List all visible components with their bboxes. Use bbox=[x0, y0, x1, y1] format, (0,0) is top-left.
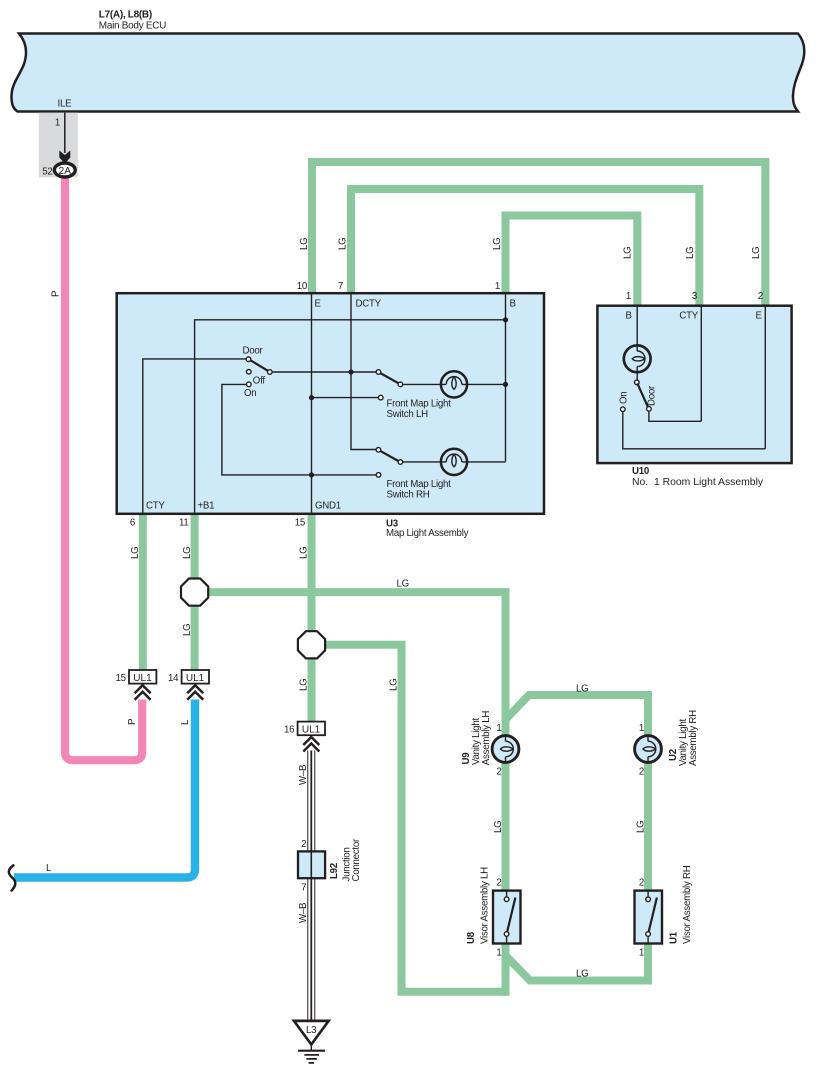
component U8 Visor Assembly LH bbox=[493, 891, 521, 944]
switch Off contact bbox=[247, 370, 252, 375]
svg-text:UL1: UL1 bbox=[133, 673, 152, 684]
wire P (pink) from connector 2A to UL1 15 bbox=[65, 177, 142, 760]
svg-text:L7(A), L8(B): L7(A), L8(B) bbox=[99, 10, 152, 21]
svg-text:LG: LG bbox=[338, 238, 349, 250]
svg-text:No. 1 Room Light Assembly: No. 1 Room Light Assembly bbox=[632, 477, 764, 488]
switch LH upper contact bbox=[376, 370, 381, 375]
svg-text:16: 16 bbox=[284, 725, 294, 736]
wire LG U3 pin 11 +B1 down to UL1 14 bbox=[191, 512, 199, 670]
switch Door contact bbox=[246, 357, 251, 362]
svg-text:1: 1 bbox=[496, 723, 501, 734]
svg-text:U8: U8 bbox=[466, 931, 477, 944]
switch LH pole contact bbox=[398, 382, 403, 387]
svg-text:Map Light Assembly: Map Light Assembly bbox=[386, 528, 469, 539]
svg-text:DCTY: DCTY bbox=[356, 299, 382, 310]
switch RH pole contact bbox=[398, 460, 403, 465]
wire Door contact to CTY bbox=[649, 411, 701, 421]
svg-text:1: 1 bbox=[495, 281, 500, 292]
svg-text:6: 6 bbox=[130, 518, 135, 529]
svg-text:Off: Off bbox=[253, 375, 266, 386]
svg-text:W–B: W–B bbox=[298, 765, 309, 785]
svg-text:LG: LG bbox=[623, 247, 634, 259]
svg-text:Visor Assembly LH: Visor Assembly LH bbox=[480, 867, 491, 944]
svg-text:LG: LG bbox=[130, 547, 141, 559]
connector shading for pin ILE bbox=[39, 113, 78, 178]
wire from ILE pin to connector 2A bbox=[64, 113, 66, 153]
wire RH pole to lamp and B bbox=[403, 461, 506, 463]
lamp Front Map Light LH bbox=[441, 371, 467, 397]
junction dot E/LH lower bbox=[309, 395, 314, 400]
wire L (blue) from page edge to UL1 14 bbox=[14, 700, 195, 878]
ground L3 bbox=[294, 1021, 329, 1063]
svg-text:L: L bbox=[46, 863, 52, 874]
svg-text:15: 15 bbox=[116, 673, 126, 684]
svg-text:Assembly RH: Assembly RH bbox=[688, 710, 699, 766]
svg-text:1: 1 bbox=[639, 723, 644, 734]
svg-text:7: 7 bbox=[338, 281, 343, 292]
wire LG diagonal branch to U2 vanity RH bbox=[506, 695, 649, 736]
svg-text:Assembly LH: Assembly LH bbox=[481, 711, 492, 766]
svg-text:E: E bbox=[315, 299, 322, 310]
svg-text:On: On bbox=[244, 388, 256, 399]
svg-text:3: 3 bbox=[692, 291, 697, 302]
connector 15 UL1 bbox=[129, 670, 156, 684]
svg-text:B: B bbox=[510, 299, 516, 310]
wire W-B from UL1 16 down to ground (white wire with black tracer) bbox=[308, 751, 315, 1021]
svg-text:7: 7 bbox=[301, 882, 306, 893]
svg-text:L: L bbox=[180, 719, 191, 725]
svg-text:2: 2 bbox=[639, 767, 644, 778]
svg-text:LG: LG bbox=[576, 684, 588, 695]
svg-text:LG: LG bbox=[299, 547, 310, 559]
svg-text:LG: LG bbox=[389, 679, 400, 691]
switch On contact U10 bbox=[621, 407, 626, 412]
connector L92 Junction Connector bbox=[298, 851, 325, 878]
wire LG from junction J2 right, down and to visor LH bbox=[312, 645, 508, 992]
switch LH lower contact bbox=[378, 395, 383, 400]
junction connector J1 octagon bbox=[181, 579, 208, 606]
svg-text:LG: LG bbox=[751, 247, 762, 259]
wire On contact to E bbox=[623, 412, 766, 449]
chevron marker below UL1 14 bbox=[187, 685, 203, 700]
lamp U9 Vanity Light Assembly LH bbox=[492, 736, 519, 763]
svg-text:LG: LG bbox=[299, 679, 310, 691]
svg-text:LG: LG bbox=[492, 238, 503, 250]
switch RH upper contact bbox=[376, 448, 381, 453]
wire switch pole to LH switch bbox=[272, 371, 376, 373]
svg-text:P: P bbox=[127, 719, 138, 725]
svg-text:15: 15 bbox=[295, 518, 305, 529]
wire LG from junction J1 right and down to vanity lights bbox=[195, 592, 506, 736]
component U1 Visor Assembly RH bbox=[635, 891, 663, 944]
junction dot DCTY/pole bbox=[348, 369, 353, 374]
svg-text:1: 1 bbox=[639, 948, 644, 959]
svg-text:2: 2 bbox=[639, 878, 644, 889]
svg-text:14: 14 bbox=[168, 673, 179, 684]
connector 2A oval bbox=[54, 163, 75, 177]
svg-text:Front Map Light: Front Map Light bbox=[387, 479, 452, 490]
node E internal line U10 bbox=[764, 307, 766, 449]
wire LH pole to lamp and B bbox=[403, 383, 506, 385]
wire LG U3 pin 15 GND1 down to UL1 16 bbox=[308, 512, 316, 723]
switch RH lower contact bbox=[376, 473, 381, 478]
svg-text:ILE: ILE bbox=[58, 99, 73, 110]
wire CTY internal to Door contact bbox=[143, 359, 246, 513]
svg-text:1: 1 bbox=[55, 117, 60, 128]
wire LG U3 pin 6 CTY down to UL1 15 bbox=[139, 512, 147, 670]
wire +B1 internal to B bbox=[195, 320, 506, 513]
svg-text:Door: Door bbox=[647, 385, 658, 406]
svg-text:LG: LG bbox=[182, 547, 193, 559]
svg-text:2A: 2A bbox=[58, 166, 71, 177]
node E internal line bbox=[311, 295, 313, 513]
switch pole contact bbox=[268, 370, 273, 375]
svg-text:LG: LG bbox=[299, 238, 310, 250]
svg-text:2: 2 bbox=[758, 291, 763, 302]
wire lamp to switch pole bbox=[636, 372, 638, 380]
svg-text:W–B: W–B bbox=[298, 903, 309, 923]
svg-text:E: E bbox=[756, 311, 763, 322]
lamp U2 Vanity Light Assembly RH bbox=[635, 736, 662, 763]
node DCTY internal line bbox=[351, 295, 376, 450]
svg-text:LG: LG bbox=[397, 579, 409, 590]
wire LH lower contact to E line bbox=[312, 397, 379, 399]
switch room light pole contact bbox=[635, 380, 640, 385]
svg-text:On: On bbox=[619, 392, 630, 404]
junction connector J2 octagon bbox=[298, 631, 325, 658]
svg-text:LG: LG bbox=[685, 247, 696, 259]
connector 16 UL1 bbox=[298, 722, 325, 736]
svg-text:LG: LG bbox=[576, 969, 588, 980]
svg-text:L3: L3 bbox=[306, 1025, 316, 1036]
svg-text:LG: LG bbox=[493, 821, 504, 833]
wire LG net DCTY (U3 pin 7 to U10 pin 3) bbox=[351, 189, 699, 306]
svg-text:10: 10 bbox=[297, 281, 308, 292]
svg-text:LG: LG bbox=[182, 624, 193, 636]
svg-text:+B1: +B1 bbox=[198, 501, 215, 512]
svg-text:CTY: CTY bbox=[679, 311, 698, 322]
switch Front Map Light Switch LH blade bbox=[379, 372, 401, 384]
lamp Front Map Light RH bbox=[441, 449, 467, 475]
switch Door/Off/On blade bbox=[249, 359, 269, 371]
svg-text:L92: L92 bbox=[329, 863, 340, 879]
svg-text:U10: U10 bbox=[632, 466, 649, 477]
wire LG below U8 visor LH bbox=[502, 943, 510, 996]
svg-text:2: 2 bbox=[301, 839, 306, 850]
svg-text:B: B bbox=[626, 311, 632, 322]
svg-text:Main Body ECU: Main Body ECU bbox=[99, 21, 166, 32]
connector 14 UL1 bbox=[182, 670, 209, 684]
svg-text:U1: U1 bbox=[669, 931, 680, 944]
svg-text:Switch LH: Switch LH bbox=[387, 409, 429, 420]
svg-text:1: 1 bbox=[496, 948, 501, 959]
switch Door contact U10 bbox=[647, 407, 652, 412]
wire LG U9 vanity LH to U8 visor LH bbox=[502, 763, 510, 892]
chevron marker below UL1 16 bbox=[303, 737, 319, 752]
wire LG net B (U3 pin 1 to U10 pin 1) bbox=[506, 216, 638, 307]
wire LG diagonal from U8 pin 1 to U1 visor RH pin 1 bbox=[506, 943, 649, 981]
junction dot B/LH lamp bbox=[503, 382, 508, 387]
switch room light blade bbox=[637, 383, 648, 408]
svg-text:GND1: GND1 bbox=[315, 501, 341, 512]
component U3 Map Light Assembly box bbox=[117, 293, 544, 514]
svg-text:LG: LG bbox=[636, 821, 647, 833]
node CTY internal line U10 bbox=[700, 307, 702, 421]
wire LG U2 vanity RH to U1 visor RH bbox=[644, 763, 652, 892]
switch Front Map Light Switch RH blade bbox=[379, 450, 401, 462]
lamp room light bbox=[624, 345, 651, 372]
svg-text:52: 52 bbox=[42, 166, 52, 177]
component U10 No.1 Room Light Assembly box bbox=[597, 306, 791, 463]
wire On contact to E line and RH lower contact bbox=[222, 384, 376, 475]
svg-text:UL1: UL1 bbox=[186, 673, 205, 684]
svg-text:Connector: Connector bbox=[351, 838, 362, 881]
switch On contact bbox=[247, 382, 252, 387]
svg-text:2: 2 bbox=[496, 878, 501, 889]
svg-text:1: 1 bbox=[626, 291, 631, 302]
component Main Body ECU band L7(A), L8(B) bbox=[11, 34, 804, 112]
node B internal line bbox=[505, 295, 507, 462]
arrow head bbox=[59, 151, 70, 164]
junction dot B/+B1 bbox=[503, 317, 508, 322]
node B internal line U10 bbox=[636, 307, 638, 345]
svg-text:Door: Door bbox=[243, 346, 264, 357]
svg-text:Front Map Light: Front Map Light bbox=[387, 399, 452, 410]
wire continuation squiggle at left end of L wire bbox=[9, 865, 15, 890]
svg-text:11: 11 bbox=[179, 518, 189, 529]
junction dot E/On line bbox=[309, 472, 314, 477]
svg-text:UL1: UL1 bbox=[302, 724, 321, 735]
svg-text:Switch RH: Switch RH bbox=[387, 490, 430, 501]
chevron marker below UL1 15 bbox=[135, 685, 151, 700]
wire LG net E (U3 pin 10 to U10 pin 2) bbox=[312, 162, 765, 306]
svg-text:P: P bbox=[51, 291, 62, 297]
svg-text:Visor Assembly RH: Visor Assembly RH bbox=[682, 865, 693, 944]
svg-text:CTY: CTY bbox=[146, 501, 165, 512]
svg-text:2: 2 bbox=[496, 767, 501, 778]
